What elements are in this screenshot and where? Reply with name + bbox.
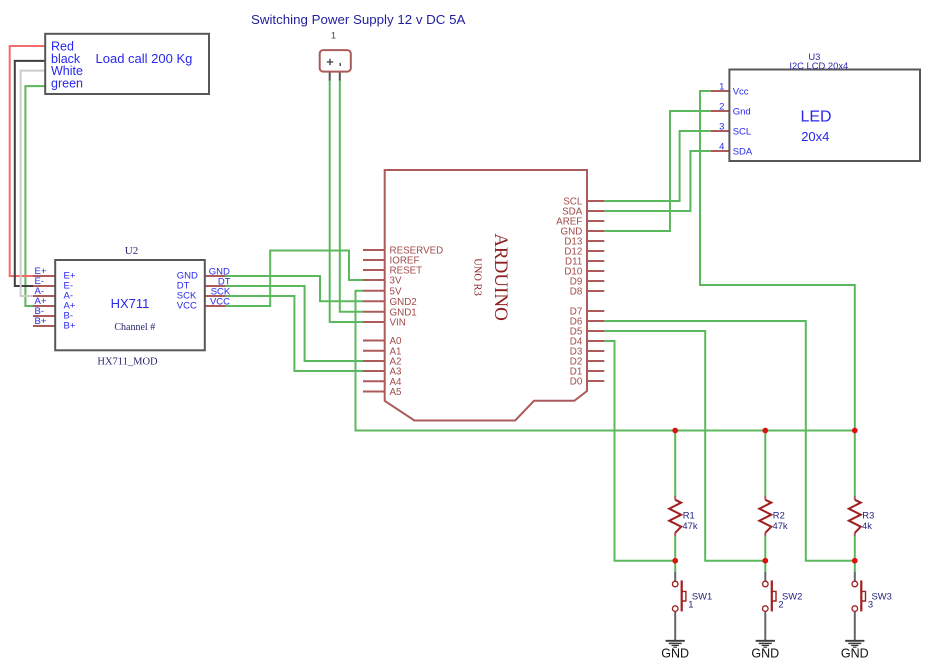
svg-text:1: 1: [331, 31, 336, 41]
svg-text:5V: 5V: [390, 286, 402, 297]
svg-text:Vcc: Vcc: [733, 86, 749, 97]
svg-text:3: 3: [868, 598, 873, 609]
svg-text:VCC: VCC: [177, 300, 197, 311]
svg-text:VCC: VCC: [210, 296, 230, 307]
svg-text:D8: D8: [570, 287, 583, 298]
svg-text:I2C LCD 20x4: I2C LCD 20x4: [789, 60, 848, 71]
svg-text:Load call 200 Kg: Load call 200 Kg: [96, 51, 193, 66]
svg-text:LED: LED: [800, 108, 831, 125]
svg-text:SW2: SW2: [782, 591, 802, 602]
svg-text:3: 3: [719, 122, 724, 133]
svg-text:A5: A5: [390, 387, 403, 398]
svg-text:D0: D0: [570, 377, 583, 388]
svg-text:B+: B+: [35, 316, 47, 327]
svg-text:green: green: [51, 76, 83, 90]
svg-text:GND: GND: [751, 647, 779, 661]
svg-text:2: 2: [719, 102, 724, 113]
svg-text:1: 1: [719, 82, 724, 93]
svg-text:SDA: SDA: [733, 146, 753, 157]
svg-text:Switching Power Supply 12 v DC: Switching Power Supply 12 v DC 5A: [251, 12, 465, 27]
svg-text:47k: 47k: [682, 520, 697, 531]
svg-text:Gnd: Gnd: [733, 106, 751, 117]
svg-text:SCL: SCL: [733, 126, 751, 137]
svg-text:B+: B+: [64, 320, 76, 331]
svg-text:U2: U2: [125, 245, 138, 257]
svg-text:SW1: SW1: [692, 591, 712, 602]
svg-text:GND: GND: [661, 647, 689, 661]
svg-text:ARDUINO: ARDUINO: [490, 233, 511, 321]
svg-text:20x4: 20x4: [801, 129, 829, 144]
svg-text:47k: 47k: [773, 520, 788, 531]
svg-text:GND2: GND2: [390, 297, 417, 308]
svg-text:SW3: SW3: [872, 591, 892, 602]
svg-text:2: 2: [778, 598, 783, 609]
svg-text:4: 4: [719, 142, 724, 153]
svg-text:3V: 3V: [390, 276, 402, 287]
svg-text:UNO R3: UNO R3: [472, 258, 483, 296]
svg-text:HX711: HX711: [111, 296, 150, 311]
svg-text:HX711_MOD: HX711_MOD: [97, 357, 158, 368]
svg-text:GND: GND: [841, 647, 869, 661]
svg-text:1: 1: [688, 598, 693, 609]
svg-text:Channel #: Channel #: [114, 322, 155, 333]
svg-text:VIN: VIN: [390, 318, 406, 329]
svg-text:4k: 4k: [862, 520, 872, 531]
